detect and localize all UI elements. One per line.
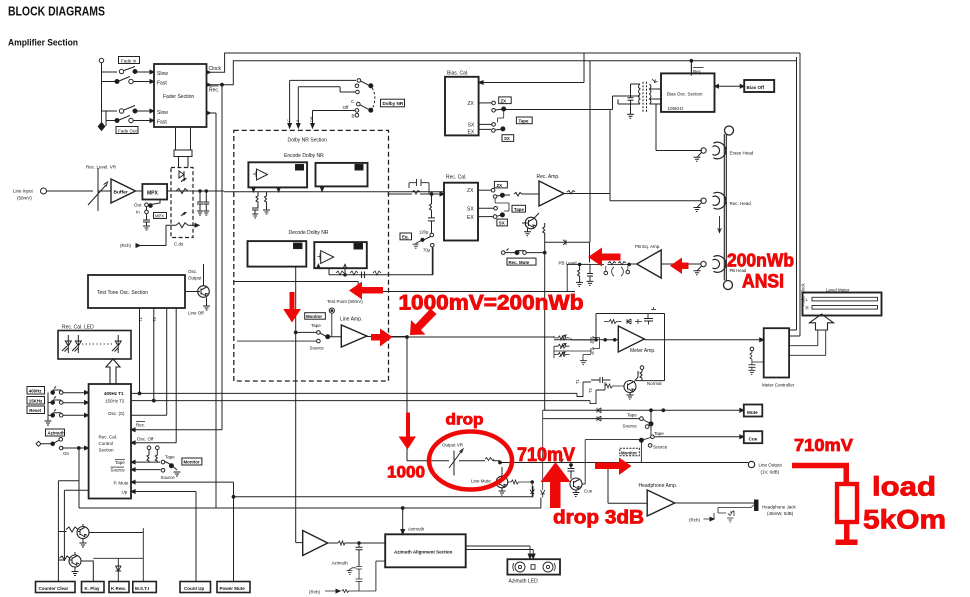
- svg-text:K Rew.: K Rew.: [111, 586, 126, 591]
- switch fade-out fast: [106, 116, 150, 121]
- svg-text:(Rch): (Rch): [689, 518, 701, 523]
- line amp output wire: [367, 336, 554, 339]
- pushbutton 15KHz: [51, 401, 55, 405]
- svg-text:T2: T2: [152, 316, 157, 322]
- pb eq amp input network: [590, 263, 637, 265]
- svg-text:P. Mute: P. Mute: [114, 480, 129, 485]
- svg-text:Azimuth: Azimuth: [48, 431, 66, 436]
- led 3: [112, 335, 121, 353]
- svg-text:Fast: Fast: [157, 81, 167, 87]
- svg-text:Azimuth Alignment Section: Azimuth Alignment Section: [394, 550, 453, 555]
- svg-text:Dolby NR: Dolby NR: [383, 101, 404, 106]
- wire fader clock down right side: [790, 53, 801, 336]
- dotted link: [82, 343, 114, 345]
- op-amp buffer: [111, 179, 136, 203]
- wire bias cal top: [479, 53, 584, 83]
- wire Up down to count up: [195, 492, 197, 583]
- wire 400hz T1 out: [131, 392, 577, 394]
- svg-text:Output: Output: [188, 276, 202, 281]
- meter controller box: [764, 328, 789, 377]
- led 1: [62, 335, 71, 353]
- svg-text:Bias Osc. Section: Bias Osc. Section: [667, 92, 703, 97]
- svg-text:120μ: 120μ: [419, 230, 429, 235]
- wire fader bottom pins: [176, 127, 191, 150]
- wire input to VR: [47, 190, 94, 192]
- monitor label box3: [620, 448, 640, 456]
- wire rec bus: [207, 61, 797, 85]
- wire rec amp out up: [609, 110, 611, 193]
- wire 150hz T2 out: [131, 400, 590, 402]
- line output terminal: [748, 461, 754, 467]
- vertical x5427: [541, 410, 545, 497]
- azimuth amp out: [328, 541, 386, 545]
- wire rec to pb mute: [589, 61, 591, 243]
- encode sub caps: [252, 208, 259, 218]
- svg-text:Tape: Tape: [654, 431, 664, 436]
- svg-text:Off: Off: [309, 116, 314, 122]
- opto resistor 1: [173, 189, 191, 194]
- svg-text:ZX: ZX: [467, 188, 474, 194]
- svg-text:Eq.: Eq.: [402, 235, 409, 240]
- wire to cue box: [654, 436, 740, 438]
- meter controller outputs: [789, 328, 826, 355]
- fade out label: [116, 127, 138, 134]
- svg-text:15KHz: 15KHz: [29, 399, 43, 404]
- zx label box bias: [499, 97, 512, 104]
- rec cal led box: [58, 331, 131, 360]
- svg-text:Rec.: Rec.: [209, 88, 219, 94]
- meter controller side terminal: [750, 347, 754, 351]
- svg-text:Azimuth: Azimuth: [408, 527, 425, 532]
- svg-text:Monitor: Monitor: [306, 314, 322, 319]
- feedback resistor: [604, 320, 622, 324]
- fade in input terminal: [99, 58, 103, 62]
- svg-text:load: load: [872, 472, 936, 502]
- svg-text:ZX: ZX: [497, 183, 503, 188]
- svg-text:Osc. (S): Osc. (S): [108, 411, 125, 416]
- wire T1 from box: [139, 308, 141, 393]
- svg-text:Erase Head: Erase Head: [730, 151, 754, 156]
- clock pin arrow: [207, 71, 211, 75]
- cue box: [744, 431, 763, 443]
- svg-text:Rec. Head: Rec. Head: [730, 201, 752, 206]
- monitor tape contact wire: [296, 331, 317, 333]
- rec cal switch: [493, 195, 497, 199]
- svg-text:Rec. Level. VR: Rec. Level. VR: [86, 165, 117, 170]
- red right arrow line amp: [371, 329, 393, 347]
- dolby NR section dashed box: [234, 130, 389, 381]
- wire MPX out: [167, 190, 224, 192]
- svg-text:Test Tone Osc. Section: Test Tone Osc. Section: [97, 290, 148, 296]
- bottom left vertical B: [64, 490, 88, 561]
- svg-text:Source: Source: [653, 444, 668, 449]
- svg-text:Cue: Cue: [749, 436, 758, 441]
- svg-text:Azimuth: Azimuth: [332, 561, 349, 566]
- svg-text:PB Eq. Amp.: PB Eq. Amp.: [635, 244, 661, 249]
- base resistor to transistor: [605, 384, 624, 388]
- svg-text:Meter Amp.: Meter Amp.: [630, 348, 656, 354]
- svg-text:EX: EX: [467, 215, 474, 221]
- wire bias to heads: [660, 88, 662, 90]
- sx label box rec cal: [497, 219, 508, 226]
- line out wire: [500, 462, 748, 464]
- wire output vr drop: [406, 337, 408, 461]
- svg-text:Section: Section: [99, 448, 115, 453]
- eq switch: [430, 233, 434, 237]
- long vertical bus x216: [215, 113, 217, 508]
- wire fader right lower pin: [207, 112, 217, 114]
- red ellipse output vr: [429, 432, 512, 490]
- dolby switch wires: [290, 80, 356, 123]
- svg-text:Decode Dolby NR: Decode Dolby NR: [289, 230, 329, 236]
- svg-text:710mV: 710mV: [517, 444, 575, 466]
- svg-text:(50mV): (50mV): [17, 196, 32, 201]
- svg-text:M.S.T.I: M.S.T.I: [135, 586, 149, 591]
- headphone jack bar: [755, 500, 759, 511]
- encode sub network resistor: [256, 192, 258, 208]
- switch fade-in slow: [102, 67, 151, 73]
- svg-text:Out: Out: [134, 203, 142, 208]
- wire pb top diode branch: [545, 242, 590, 262]
- red load wire top: [792, 463, 849, 484]
- azimuth fet switch: [348, 567, 362, 580]
- pushbutton 400Hz: [51, 391, 55, 395]
- meter out wire: [644, 339, 763, 341]
- 15KHz label box: [27, 397, 45, 405]
- bias cal box: [445, 77, 479, 136]
- svg-text:ANSI: ANSI: [742, 270, 784, 292]
- sx label box bias: [502, 135, 514, 142]
- tape line bottom guide: [724, 281, 733, 290]
- wire pmute branch: [234, 486, 534, 497]
- tape source switch 1: [543, 418, 640, 420]
- opto LED 1: [179, 171, 187, 182]
- azimuth amp triangle: [303, 531, 328, 556]
- rec mute switch: [501, 251, 505, 255]
- red thin down arrow 1000: [399, 413, 417, 450]
- line mute resistor: [508, 480, 532, 484]
- svg-text:Encode Dolby NR: Encode Dolby NR: [284, 153, 324, 159]
- svg-text:T2: T2: [588, 387, 593, 393]
- svg-text:Tape: Tape: [514, 207, 524, 212]
- power mute box: [217, 582, 250, 593]
- headphone amp input: [608, 465, 647, 503]
- monitor switch lineamp: [317, 331, 321, 335]
- svg-text:Clock: Clock: [209, 66, 222, 72]
- svg-text:Bias. Cal.: Bias. Cal.: [447, 71, 468, 77]
- erase head feed: [656, 104, 702, 151]
- led square: [531, 565, 535, 570]
- ground osc output: [203, 306, 210, 310]
- dashed box C.ds: [171, 168, 193, 238]
- svg-text:MPX: MPX: [155, 214, 164, 219]
- azimuth label box: [46, 429, 65, 436]
- rec label above bias osc: [690, 65, 692, 74]
- svg-text:Rec.: Rec.: [136, 423, 145, 428]
- rec mute label box: [507, 258, 536, 265]
- svg-text:1000mV=200nWb: 1000mV=200nWb: [399, 292, 584, 315]
- svg-text:Rec.: Rec.: [693, 69, 702, 74]
- wire P mute down to power mute: [233, 482, 235, 582]
- pb head: [713, 256, 726, 273]
- svg-text:Tape: Tape: [627, 412, 637, 417]
- svg-text:Dolby NR Section: Dolby NR Section: [288, 138, 328, 144]
- monitor label box: [182, 458, 202, 465]
- svg-text:105KHz: 105KHz: [668, 106, 685, 111]
- headphone amp triangle: [647, 490, 675, 516]
- svg-text:Headphone Amp.: Headphone Amp.: [639, 483, 678, 489]
- meter switch fets: [571, 336, 600, 344]
- svg-text:Osc. Off: Osc. Off: [137, 436, 154, 441]
- rec cal zx label box: [494, 181, 507, 188]
- svg-text:Count Up: Count Up: [184, 586, 204, 591]
- headphone out wire: [675, 502, 754, 504]
- svg-text:1000: 1000: [387, 463, 425, 481]
- wire opto stubs: [179, 157, 189, 168]
- bias sx ex wires: [479, 124, 492, 129]
- svg-text:Counter Clear: Counter Clear: [39, 586, 69, 591]
- bottom left vertical A counter clear: [58, 481, 79, 582]
- line mute transistor: [496, 476, 508, 488]
- mst box: [133, 582, 157, 593]
- wire rch to opto: [140, 225, 167, 245]
- bias osc section box: [661, 73, 715, 112]
- pb level network: [567, 264, 589, 286]
- svg-text:Fader Clock: Fader Clock: [801, 283, 806, 306]
- bias off box: [744, 80, 774, 92]
- resistor collector: [543, 223, 545, 253]
- encode box2 chip square: [355, 165, 363, 171]
- svg-text:Line Amp.: Line Amp.: [340, 317, 362, 323]
- rec cal sx ex wires: [478, 208, 494, 216]
- count up box: [180, 582, 211, 593]
- wire bias osc to bias off: [715, 85, 743, 87]
- reset label box: [27, 406, 45, 414]
- svg-text:710mV: 710mV: [794, 435, 853, 455]
- rec pin arrow: [207, 83, 211, 87]
- tape line top guide: [725, 126, 734, 135]
- tape direction arrow: [718, 216, 722, 233]
- rec cal control section box: [89, 384, 131, 499]
- rec amp out wire: [564, 191, 610, 195]
- azimuth cap2: [356, 579, 376, 591]
- transistor Q2 kplay: [69, 555, 81, 567]
- wire clock bus: [207, 53, 801, 72]
- hollow arrow to level meter: [810, 314, 834, 330]
- svg-text:Fader Section: Fader Section: [163, 94, 194, 100]
- svg-text:Tape: Tape: [519, 119, 529, 124]
- svg-text:Line Mute: Line Mute: [471, 479, 491, 484]
- MPX box: [142, 184, 167, 200]
- svg-text:Tape: Tape: [115, 460, 125, 465]
- svg-text:Line Off: Line Off: [188, 311, 204, 316]
- bus caps x206: [203, 191, 209, 215]
- svg-text:On: On: [63, 451, 70, 456]
- svg-text:150Hz T2: 150Hz T2: [105, 398, 125, 403]
- svg-text:B: B: [352, 114, 355, 119]
- svg-text:Slow: Slow: [157, 110, 168, 116]
- red left arrow pb line: [349, 282, 383, 300]
- svg-text:C.ds: C.ds: [174, 242, 184, 247]
- svg-text:Tape: Tape: [311, 323, 321, 328]
- red left arrow pb level: [588, 248, 621, 267]
- svg-text:Line Input: Line Input: [13, 189, 34, 194]
- line amp triangle: [341, 325, 367, 347]
- rec head feed: [609, 193, 611, 195]
- monitor tape switch: [136, 462, 172, 470]
- opto resistor 2: [166, 223, 195, 228]
- test point terminal: [329, 308, 334, 313]
- svg-text:EX: EX: [468, 130, 475, 136]
- svg-text:K. Play: K. Play: [85, 586, 101, 591]
- svg-text:In: In: [136, 210, 140, 215]
- level meter bar R: [812, 306, 878, 310]
- decode box1 output down: [295, 267, 297, 333]
- pb head wire: [662, 263, 702, 265]
- svg-text:Fade In: Fade In: [121, 58, 137, 63]
- switch fade-in fast: [102, 77, 151, 82]
- bias osc transformer: [643, 82, 647, 112]
- meter network grounds: [580, 355, 591, 365]
- encode box1 chip square: [296, 165, 304, 171]
- output vr line: [407, 461, 500, 463]
- led circle 1: [515, 562, 525, 572]
- tape label box rec cal: [512, 205, 526, 212]
- red diagonal arrow to node: [410, 309, 437, 336]
- red up arrow drop3db: [541, 462, 571, 508]
- fade in label: [119, 57, 140, 64]
- rec head: [713, 192, 726, 209]
- svg-text:200nWb: 200nWb: [727, 251, 794, 271]
- mpx bypass switch: [147, 200, 161, 211]
- svg-text:5kOm: 5kOm: [863, 505, 946, 535]
- pushbutton reset: [51, 414, 55, 418]
- meter amp triangle: [618, 326, 644, 352]
- svg-text:Rec. Cal. LED: Rec. Cal. LED: [62, 325, 94, 331]
- svg-text:Headphone Jack: Headphone Jack: [762, 505, 797, 510]
- svg-text:Rec. Cal.: Rec. Cal.: [99, 435, 118, 440]
- svg-text:T1: T1: [138, 316, 143, 322]
- wire rec pin: [131, 429, 222, 431]
- rec cal box: [444, 183, 478, 241]
- svg-text:Source: Source: [310, 346, 325, 351]
- erase head: [713, 142, 726, 159]
- transistor Q counter: [77, 527, 89, 539]
- svg-text:Source: Source: [623, 424, 638, 429]
- wire VR to buffer: [98, 190, 111, 192]
- ground mpx: [143, 226, 150, 230]
- azimuth alignment box: [385, 534, 466, 567]
- svg-text:(Rch): (Rch): [120, 243, 132, 248]
- output vr symbol: [449, 449, 463, 476]
- dolby NR label box: [381, 99, 405, 107]
- svg-text:Monitor: Monitor: [184, 459, 200, 464]
- bottom bus wires: [79, 448, 541, 508]
- decode box 1: [248, 241, 307, 267]
- opto pair 2: [181, 212, 187, 216]
- wire fade-out stub: [105, 111, 107, 126]
- svg-text:Osc.: Osc.: [188, 269, 197, 274]
- svg-text:SX: SX: [504, 136, 510, 141]
- feedback diodes: [627, 319, 642, 324]
- pb eq amp triangle: [637, 250, 662, 278]
- wire buffer to MPX: [136, 190, 143, 192]
- wire osc S out: [131, 414, 167, 416]
- rch arrow headphone: [704, 513, 715, 519]
- ground buttons: [45, 393, 52, 426]
- svg-text:Reset: Reset: [29, 408, 41, 413]
- hollow arrow to led box: [106, 359, 120, 384]
- svg-text:Amplifier Section: Amplifier Section: [8, 38, 78, 48]
- svg-text:(Rch): (Rch): [309, 589, 321, 594]
- rec cal zx wire: [478, 189, 491, 191]
- eq network down: [428, 194, 435, 233]
- svg-text:drop 3dB: drop 3dB: [553, 508, 644, 529]
- svg-text:Fade Out: Fade Out: [118, 129, 138, 134]
- fader section box: [154, 64, 207, 127]
- svg-text:Source: Source: [111, 467, 126, 472]
- svg-text:Monitor: Monitor: [621, 450, 637, 455]
- svg-text:SX: SX: [467, 207, 474, 213]
- svg-text:(1V, 0dB): (1V, 0dB): [761, 469, 780, 474]
- svg-text:Output VR: Output VR: [442, 443, 464, 448]
- switch fade-out slow: [106, 106, 150, 112]
- normal transistor: [624, 381, 636, 393]
- red load resistor: [837, 484, 857, 522]
- decode box2 opamp: [321, 251, 334, 264]
- meter input wire: [554, 339, 618, 341]
- eq capacitor bypass: [388, 179, 430, 194]
- encode box 2: [316, 163, 368, 187]
- jack small wires: [718, 505, 755, 517]
- svg-text:(45mW, 0dB): (45mW, 0dB): [767, 511, 794, 516]
- svg-text:Buffer: Buffer: [114, 190, 128, 196]
- tape label box bias: [516, 117, 532, 124]
- azimuth on switch: [36, 440, 63, 448]
- test tone osc section box: [88, 275, 185, 308]
- feedback fet: [644, 314, 653, 325]
- k play box: [82, 582, 105, 593]
- svg-text:C: C: [286, 119, 291, 122]
- led 2: [72, 335, 81, 353]
- bias cal zx wire: [479, 102, 492, 104]
- decode input wire: [234, 282, 575, 292]
- bias switch: [492, 109, 496, 113]
- level meter box: [803, 293, 882, 316]
- azimuth feed arrow: [402, 508, 404, 530]
- svg-text:SX: SX: [499, 221, 505, 226]
- bus caps x200: [197, 191, 203, 215]
- MPX label box: [154, 213, 167, 219]
- k rew diode vertical: [116, 558, 122, 582]
- svg-text:70μ: 70μ: [423, 248, 431, 253]
- svg-text:MPX: MPX: [147, 191, 159, 197]
- rec cal switch link: [495, 198, 509, 211]
- svg-text:Rec. Amp.: Rec. Amp.: [537, 174, 560, 180]
- t1 t2 caps: [591, 377, 611, 383]
- svg-text:400Hz: 400Hz: [29, 389, 42, 394]
- dolby switch contacts deck2: [357, 102, 361, 106]
- svg-text:Line Output: Line Output: [759, 463, 783, 468]
- decode box2 chip square: [354, 244, 363, 250]
- rch azimuth: [325, 590, 359, 593]
- decode feedback wire: [329, 248, 433, 275]
- svg-text:Control: Control: [99, 441, 114, 446]
- cue transistor branch: [568, 465, 575, 479]
- wire osc S vertical: [166, 308, 168, 415]
- capacitor mpx: [143, 214, 150, 226]
- svg-text:Azimuth LED: Azimuth LED: [509, 578, 539, 584]
